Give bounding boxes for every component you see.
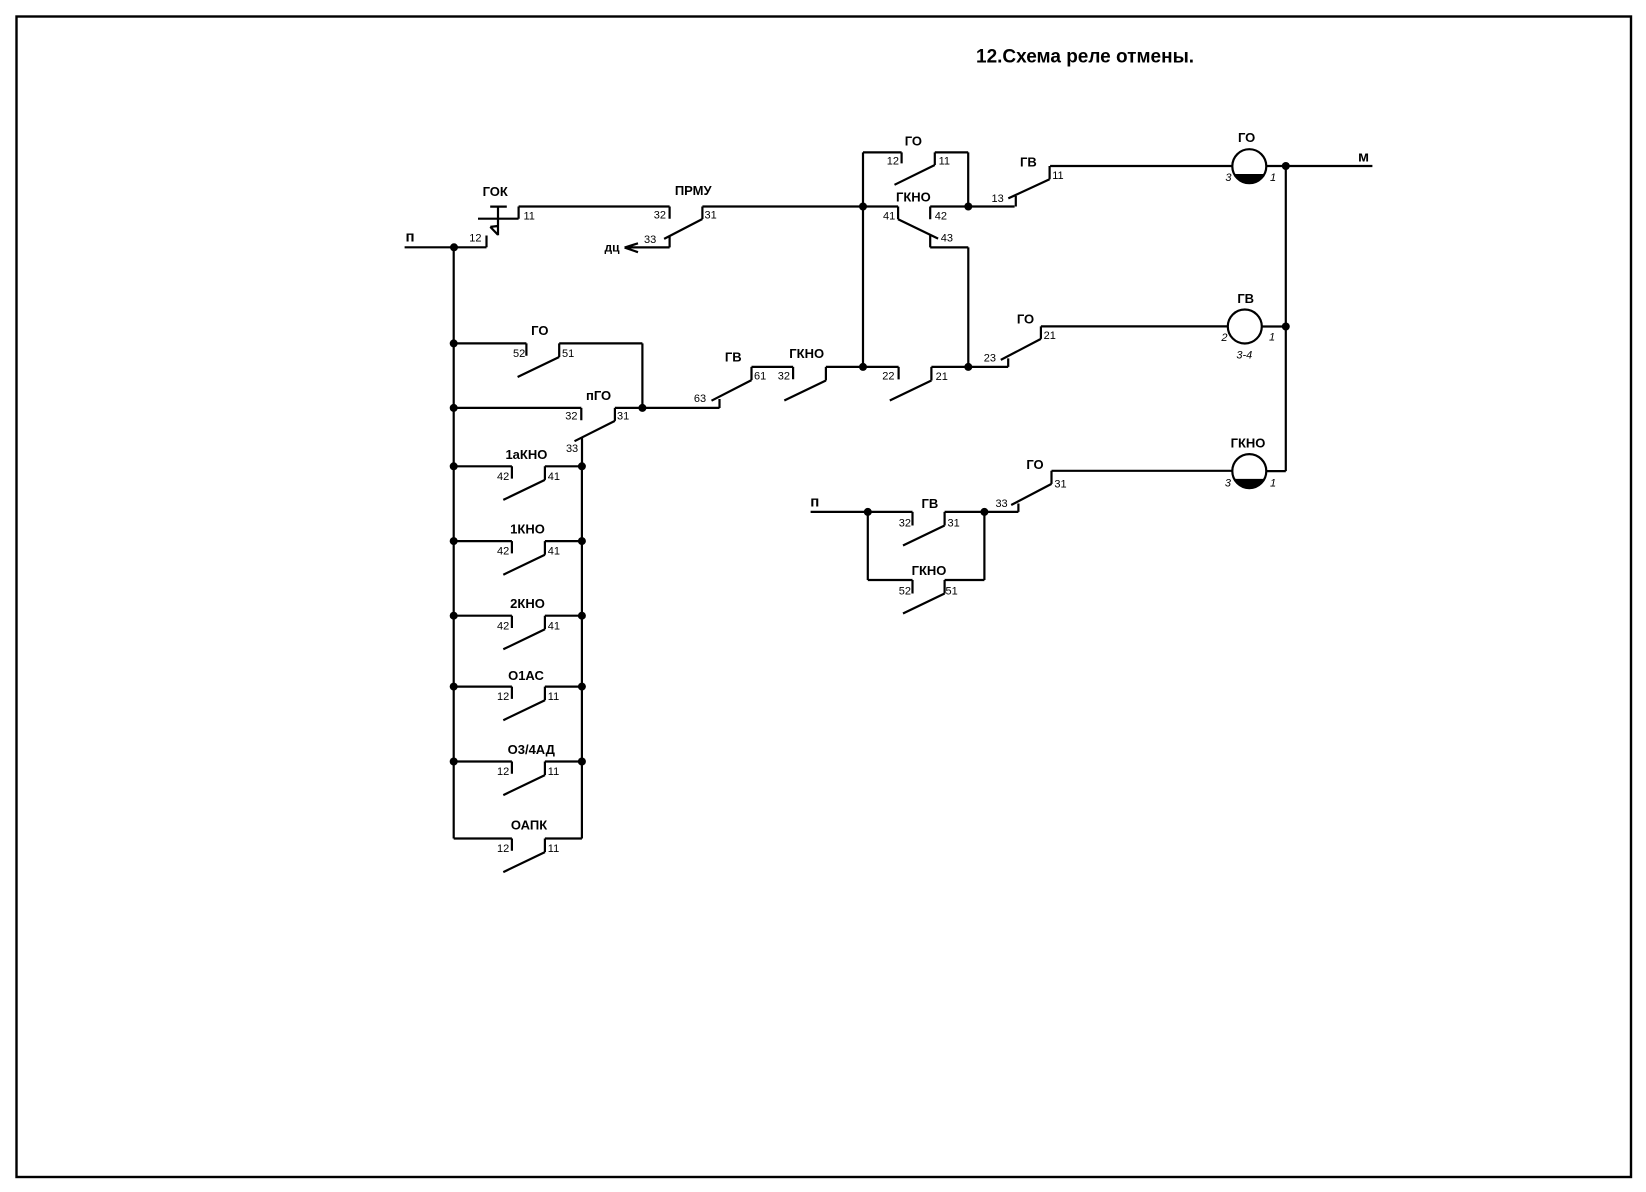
wire: node П lead (top-left) [405,236,487,248]
svg-text:11: 11 [939,156,950,168]
svg-text:11: 11 [548,691,559,703]
svg-text:дц: дц [605,241,621,255]
junction left bus / GO row [450,339,458,347]
svg-text:43: 43 [941,233,953,245]
svg-text:2: 2 [1220,332,1227,344]
node П junction [450,243,458,251]
svg-text:ГВ: ГВ [725,350,742,365]
svg-text:31: 31 [617,411,629,423]
relay coil GO [1232,149,1266,183]
wire: GO21 to GV coil [1041,325,1228,327]
svg-text:1аКНО: 1аКНО [505,447,547,462]
svg-text:ГО: ГО [1238,130,1255,145]
wire: bottom loop lower rail [868,579,913,581]
svg-text:41: 41 [548,620,560,632]
svg-text:ГО: ГО [531,323,548,338]
svg-text:пГО: пГО [586,388,611,403]
svg-text:2КНО: 2КНО [510,596,545,611]
svg-text:3: 3 [1225,478,1232,490]
junction right bus / O1AS row [578,683,586,691]
svg-text:1КНО: 1КНО [510,522,545,537]
svg-text:31: 31 [705,210,717,222]
junction left bus / O1AS row [450,683,458,691]
junction left bus / pGO row [450,404,458,412]
wire: vertical A down [862,207,864,367]
junction left bus / O3/4AD row [450,758,458,766]
svg-text:31: 31 [948,518,960,530]
wire: GV coil to right bus [1262,325,1286,327]
contact GV 13-11 [1008,166,1049,207]
svg-text:1: 1 [1270,478,1276,490]
svg-text:11: 11 [548,766,559,778]
node A (top rail) [859,203,867,211]
wire: rail 42 to node B [930,205,1014,207]
contact GV 32-31 (bottom) [903,512,984,546]
svg-text:ГО: ГО [1017,311,1034,326]
junction M bus / GV coil [1282,323,1290,331]
wire: GKNO coil to right bus [1266,470,1286,472]
svg-text:31: 31 [1054,479,1066,491]
junction right bus / 1aKNO row [578,462,586,470]
wire: GO ladder down to pGO rail [641,343,643,408]
junction right bus / 2KNO row [578,612,586,620]
svg-text:42: 42 [497,546,509,558]
svg-text:ГО: ГО [1026,457,1043,472]
contact GO 33-31 (bottom) [984,471,1051,512]
contact GOK 12-11 (time-delay symbol) [478,207,519,236]
svg-text:О3/4АД: О3/4АД [508,742,556,757]
svg-text:52: 52 [899,586,911,598]
contact GKNO 52-51 (bottom) [903,580,984,614]
svg-text:41: 41 [548,471,560,483]
contact 22-21 (NO) [890,367,1008,401]
svg-text:ГО: ГО [905,133,922,148]
svg-text:42: 42 [497,620,509,632]
svg-text:12.Схема реле отмены.: 12.Схема реле отмены. [976,47,1194,68]
wire: GO coil to M terminal [1266,165,1372,167]
svg-text:23: 23 [984,353,996,365]
svg-text:33: 33 [995,498,1007,510]
svg-text:21: 21 [1044,330,1056,342]
junction middle rail / vertical A [859,363,867,371]
wire: to DTs with arrow [625,243,670,252]
contact GKNO 32-x (NO) [784,367,898,401]
wire: middle rail 61-32 [752,366,794,368]
svg-text:О1АС: О1АС [508,668,544,683]
svg-text:ГВ: ГВ [1237,291,1254,306]
svg-text:ГВ: ГВ [922,496,939,511]
svg-text:ГОК: ГОК [483,184,508,199]
svg-text:21: 21 [936,371,948,383]
node P (bottom branch) [811,511,913,513]
svg-text:12: 12 [469,233,481,245]
svg-text:м: м [1358,149,1369,166]
svg-text:12: 12 [887,156,899,168]
contact pGO 32-31-33 (changeover) [454,408,615,466]
svg-text:12: 12 [497,766,509,778]
svg-text:11: 11 [524,210,535,222]
svg-text:п: п [810,494,819,511]
svg-text:11: 11 [1052,170,1063,182]
junction pGO rail / GO branch [638,404,646,412]
contact GO 23-21 [1001,326,1041,367]
svg-text:ГВ: ГВ [1020,155,1037,170]
svg-text:1: 1 [1270,172,1276,184]
wire: rail PRMU to node A [702,205,898,207]
svg-text:32: 32 [899,518,911,530]
contact GKNO 41-42-43 (changeover) [898,207,968,367]
svg-text:ГКНО: ГКНО [896,189,931,204]
svg-text:11: 11 [548,843,559,855]
contact GO 52-51 (ladder) [454,343,643,377]
junction bottom P rail left [864,508,872,516]
svg-text:ОАПК: ОАПК [511,817,547,832]
svg-text:42: 42 [935,210,947,222]
junction bottom P rail right [980,508,988,516]
contact 2KNO 42-41 [454,616,582,650]
wire: GO31 to GKNO coil [1052,470,1233,472]
svg-text:1: 1 [1269,332,1275,344]
svg-text:52: 52 [513,348,525,360]
junction right bus / O3/4AD row [578,758,586,766]
svg-text:33: 33 [644,234,656,246]
svg-text:32: 32 [654,210,666,222]
svg-text:32: 32 [778,370,790,382]
junction middle rail / vertical B [964,363,972,371]
contact 1KNO 42-41 [454,541,582,575]
junction left bus / 1aKNO row [450,462,458,470]
contact 1aKNO 42-41 [454,466,582,500]
wire: GV to GO coil [1050,165,1232,167]
svg-text:12: 12 [497,691,509,703]
wire: right bus vertical [1285,166,1287,471]
node B (top rail) [964,203,972,211]
wire: pGO rail to GV63 [615,407,720,409]
svg-text:51: 51 [946,586,958,598]
svg-text:33: 33 [566,443,578,455]
svg-text:51: 51 [562,348,574,360]
contact GV 63-61 [712,367,752,408]
svg-text:22: 22 [882,371,894,383]
svg-text:41: 41 [883,210,895,222]
contact O1AS 12-11 [454,687,582,721]
svg-text:41: 41 [548,546,560,558]
wire: left bus vertical [453,247,455,838]
contact GO 12-11 (top branch) [863,152,968,206]
contact PRMU 32-31-33 (changeover) [664,207,702,248]
junction left bus / 2KNO row [450,612,458,620]
svg-text:13: 13 [992,193,1004,205]
svg-text:42: 42 [497,471,509,483]
wire: bottom loop left vertical [867,512,869,580]
wire: bottom loop right vertical [983,512,985,580]
wire: right ladder bus [581,466,583,838]
svg-text:ГКНО: ГКНО [789,346,824,361]
svg-text:ГКНО: ГКНО [912,563,947,578]
wire: rail GOK to PRMU [519,205,670,207]
svg-text:3: 3 [1225,172,1232,184]
svg-text:32: 32 [565,411,577,423]
svg-text:ПРМУ: ПРМУ [675,183,713,198]
contact OAPK 12-11 [454,839,582,873]
svg-text:п: п [405,229,414,246]
relay coil GV [1228,310,1262,344]
svg-text:63: 63 [694,393,706,405]
svg-text:61: 61 [754,370,766,382]
junction M bus / GO coil [1282,162,1290,170]
junction left bus / 1KNO row [450,537,458,545]
svg-text:12: 12 [497,843,509,855]
contact O3/4AD 12-11 [454,762,582,796]
svg-text:ГКНО: ГКНО [1231,435,1266,450]
svg-text:3-4: 3-4 [1236,349,1252,361]
relay coil GKNO [1232,454,1266,488]
junction right bus / 1KNO row [578,537,586,545]
